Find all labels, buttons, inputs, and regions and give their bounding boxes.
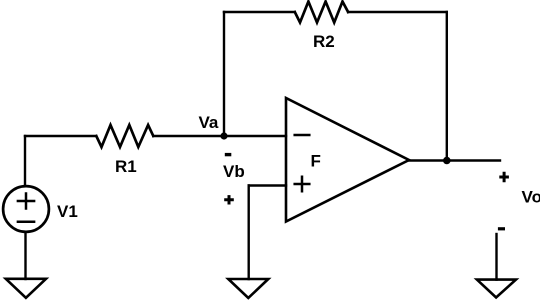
svg-text:V1: V1 bbox=[57, 202, 78, 221]
wire input left (source to R1) bbox=[25, 135, 96, 137]
wire feedback vertical right (top to output) bbox=[446, 12, 448, 161]
voltage source V1 circle bbox=[3, 186, 49, 232]
wire feedback vertical left (node Va to top) bbox=[223, 12, 225, 136]
V1 plus symbol bbox=[18, 194, 34, 209]
label minus at inverting input bbox=[225, 153, 232, 156]
wire top feedback left segment bbox=[224, 11, 295, 13]
svg-text:Va: Va bbox=[199, 113, 219, 132]
resistor R1 bbox=[96, 125, 153, 147]
label plus at non-inverting input bbox=[224, 195, 234, 204]
label plus at output bbox=[499, 172, 509, 182]
svg-text:R2: R2 bbox=[313, 32, 335, 51]
wire output minus terminal to ground bbox=[495, 234, 497, 280]
node Va junction dot bbox=[220, 132, 227, 139]
wire non-inverting to ground bbox=[247, 186, 249, 280]
ground below non-inverting input bbox=[228, 279, 268, 298]
svg-text:R1: R1 bbox=[115, 157, 137, 176]
resistor R2 bbox=[295, 2, 348, 23]
V1 minus symbol bbox=[18, 220, 34, 223]
label minus at output bbox=[498, 227, 505, 230]
wire R1 to op-amp inverting input bbox=[153, 135, 286, 137]
ground below V1 bbox=[6, 279, 46, 298]
wire V1 bottom to ground bbox=[24, 233, 26, 280]
ground at output bbox=[477, 280, 516, 298]
wire non-inverting input bbox=[249, 184, 286, 186]
wire V1 top to input wire bbox=[24, 136, 26, 186]
wire op-amp output bbox=[409, 159, 500, 161]
op-amp minus input symbol bbox=[295, 134, 310, 137]
wire top feedback right segment bbox=[348, 11, 447, 13]
node output junction dot bbox=[443, 157, 451, 165]
op-amp U1 triangle bbox=[286, 98, 409, 222]
svg-text:F: F bbox=[311, 152, 321, 171]
svg-text:Vo: Vo bbox=[522, 188, 540, 207]
op-amp plus input symbol bbox=[295, 177, 310, 192]
svg-text:Vb: Vb bbox=[223, 162, 245, 181]
